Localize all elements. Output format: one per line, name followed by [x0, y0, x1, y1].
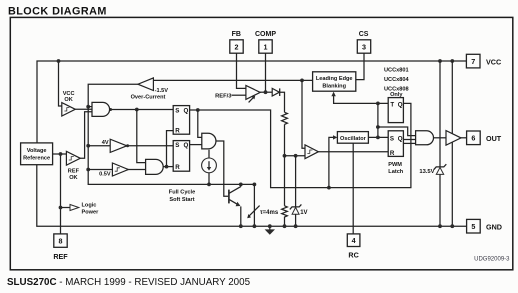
junction GND rail / transistor emitter	[239, 224, 243, 228]
wire 13.5V zener lower lead to GND rail	[439, 174, 441, 226]
svg-text:13.5V: 13.5V	[419, 169, 434, 175]
wire PWM latch Q output to gate G4	[403, 139, 415, 141]
svg-text:Leading Edge: Leading Edge	[316, 76, 353, 82]
svg-text:REF: REF	[53, 252, 68, 261]
comparator VCC OK	[62, 103, 76, 116]
junction GND rail / 1V zener	[294, 224, 298, 228]
svg-text:OUT: OUT	[486, 134, 502, 143]
junction Q1 wire / gate M1 branch	[196, 108, 200, 112]
junction GND rail / 13.5V zener	[438, 224, 442, 228]
wire 0.5V comparator input branch	[88, 169, 112, 171]
gate M1 (AND)	[202, 133, 216, 149]
wire gate G1 output to latch L1 S input	[110, 109, 174, 111]
wire gate G4 output to buffer	[434, 137, 446, 139]
arrow up into leading edge blanking	[331, 92, 335, 97]
latch L2 (SR)	[173, 141, 189, 172]
svg-text:FB: FB	[232, 31, 241, 38]
junction VCC rail / 13.5V zener	[438, 59, 442, 63]
svg-text:2: 2	[235, 42, 239, 51]
soft start switch with time constant	[247, 184, 259, 226]
junction REF net / logic power branch	[59, 206, 63, 210]
svg-text:UDG92009-3: UDG92009-3	[474, 257, 510, 263]
wire leading edge blanking output to over-current comparator	[154, 79, 313, 81]
svg-text:1V: 1V	[300, 210, 307, 216]
svg-text:Q: Q	[184, 107, 189, 114]
error amp U1	[246, 85, 260, 102]
svg-text:8: 8	[59, 236, 63, 245]
wire gate M1 output to transistor base	[216, 141, 228, 196]
svg-text:-1.5V: -1.5V	[155, 88, 169, 94]
current source circle	[202, 150, 217, 185]
svg-text:Power: Power	[82, 210, 100, 216]
svg-text:REF: REF	[68, 169, 80, 175]
svg-text:S: S	[175, 107, 179, 114]
junction S1 wire / gate M2 branch	[135, 108, 139, 112]
svg-text:UCCx801: UCCx801	[384, 67, 409, 73]
junction VCC rail / VCC OK branch	[57, 59, 61, 63]
svg-text:OK: OK	[64, 97, 72, 103]
wire oscillator output to PWM latch S input	[368, 136, 388, 138]
svg-text:OK: OK	[69, 175, 77, 181]
buffer output driver	[446, 131, 461, 146]
junction blanking net / gate G4 branch	[376, 125, 380, 129]
junction line B / oscillator input branch	[327, 186, 331, 190]
svg-text:1: 1	[264, 42, 268, 51]
svg-text:CS: CS	[359, 31, 369, 38]
svg-text:Over-Current: Over-Current	[131, 95, 166, 101]
svg-text:VCC: VCC	[486, 57, 501, 66]
gate G1 (AND)	[92, 102, 110, 116]
pin 8 REF	[53, 234, 68, 261]
svg-text:4V: 4V	[102, 140, 109, 146]
wire CS pin to leading edge blanking	[356, 53, 364, 79]
wire over-current output / soft start node (down left side to line A)	[88, 84, 254, 184]
wire COMP pin down to error amp output	[265, 53, 267, 92]
wire VCC OK comparator input branch	[59, 61, 63, 106]
junction GND rail / soft start switch	[253, 224, 257, 228]
transistor Q1 (soft start discharge, diode-connected)	[229, 184, 241, 226]
latch PWM (SR)	[388, 131, 403, 157]
ground symbol	[265, 226, 275, 235]
comparator 0.5V	[112, 163, 128, 176]
pin 3 CS	[357, 31, 370, 53]
wire branch to gate G4 input	[378, 127, 416, 136]
wire FB pin to error amp	[237, 53, 246, 88]
svg-text:REF/3: REF/3	[215, 93, 232, 99]
pin 4 RC	[347, 234, 360, 260]
zener diode 13.5V	[434, 164, 447, 174]
svg-text:Logic: Logic	[82, 203, 97, 209]
junction soft start node / 4V comparator input	[86, 144, 90, 148]
wire buffer output to OUT pin	[461, 137, 467, 139]
junction line A / soft start switch	[253, 183, 257, 187]
wire latch L2 Q output to gate M1	[190, 144, 202, 146]
junction R net	[165, 165, 169, 169]
svg-text:Oscillator: Oscillator	[340, 136, 367, 142]
svg-text:5: 5	[471, 222, 475, 231]
diode D1	[272, 88, 280, 96]
box oscillator	[337, 132, 368, 144]
svg-text:Soft Start: Soft Start	[169, 197, 194, 203]
wire REF/3 stub to error amp	[232, 94, 246, 96]
junction REF net tap	[59, 152, 63, 156]
wire GND rail (net GND: pin5 to voltage reference bottom)	[37, 165, 467, 227]
svg-text:BLOCK DIAGRAM: BLOCK DIAGRAM	[8, 6, 107, 18]
svg-text:3: 3	[362, 42, 366, 51]
comparator PWM	[305, 145, 318, 159]
junction line A / transistor collector	[239, 183, 243, 187]
comparator over-current (points left)	[138, 78, 154, 91]
resistor R1 (divider)	[282, 206, 288, 226]
pin 5 GND	[467, 219, 502, 233]
svg-text:GND: GND	[486, 222, 502, 231]
svg-text:Reference: Reference	[23, 156, 50, 162]
wire 0.5V comparator output to gate M2	[128, 169, 145, 171]
wire 1V zener upper lead	[295, 156, 297, 207]
wire divider node to PWM comparator input	[285, 155, 306, 157]
svg-text:S: S	[175, 142, 179, 149]
wire branch down to PWM comparator input	[302, 80, 305, 148]
junction over-current net / AND gate G1 input	[86, 105, 90, 109]
svg-text:4: 4	[352, 236, 356, 245]
svg-text:SLUS270C - MARCH 1999 - REVISE: SLUS270C - MARCH 1999 - REVISED JANUARY …	[7, 277, 251, 288]
gate M2 (AND)	[146, 159, 164, 174]
svg-text:Q: Q	[398, 135, 403, 142]
gate G4 (AND, output)	[416, 131, 434, 145]
junction soft start node / 0.5V comparator input	[86, 168, 90, 172]
junction GND rail / output stage	[450, 224, 454, 228]
latch L1 (SR)	[173, 106, 189, 135]
wire blanking net down to oscillator output node	[377, 103, 379, 137]
svg-text:RC: RC	[348, 251, 358, 260]
svg-text:S: S	[390, 135, 394, 142]
wire REF OK output up to gate G1	[80, 112, 92, 159]
svg-text:R: R	[175, 164, 180, 171]
wire oscillator input branch	[329, 137, 333, 187]
junction 4V comparator tip	[126, 144, 129, 147]
wire latch L1 Q output / line B / T flip-flop Q (long loop)	[190, 103, 411, 187]
wire VCC rail (net VCC: pin7 to voltage reference top)	[37, 61, 466, 143]
junction LEB output / PWM comparator branch	[300, 79, 304, 83]
arrow to logic power	[70, 205, 79, 211]
junction GND rail / ground stub	[268, 224, 272, 228]
flip-flop T (toggle)	[388, 98, 403, 123]
junction 1V zener tap	[294, 154, 298, 158]
svg-text:R: R	[175, 128, 180, 135]
pin 6 OUT	[467, 131, 502, 145]
pin 7 VCC	[466, 54, 501, 68]
box voltage reference	[21, 143, 53, 165]
comparator 4V	[110, 139, 127, 152]
junction oscillator output node	[376, 136, 380, 140]
wire branch down to gate M2 input	[137, 110, 146, 163]
wire diode to resistor R2	[280, 92, 285, 112]
svg-text:τ=4ms: τ=4ms	[260, 210, 279, 216]
resistor R2 (compensation divider upper)	[282, 112, 288, 124]
pin 2 FB	[230, 31, 243, 53]
wire latch L1 R input branch	[167, 131, 174, 167]
junction divider node	[283, 154, 287, 158]
wire leading edge blanking lower output to T flip-flop	[334, 96, 389, 104]
wire PWM comparator output to PWM latch R input	[318, 151, 388, 153]
junction VCC rail / output stage	[450, 59, 454, 63]
wire branch down to gate M1 input	[198, 110, 202, 137]
wire stub into gate G1	[88, 106, 92, 108]
pin 1 COMP	[255, 31, 276, 53]
wire error amp output to diode	[260, 91, 273, 93]
svg-text:R: R	[390, 150, 395, 157]
svg-text:UCCx804: UCCx804	[384, 77, 409, 83]
svg-text:Blanking: Blanking	[322, 84, 346, 90]
wire gate M2 output to latch R inputs	[163, 166, 173, 168]
wire oscillator to RC pin 4	[352, 143, 354, 234]
wire output stage rail (VCC to GND behind output buffer)	[451, 61, 453, 226]
wire voltage reference output to REF OK comparator	[53, 153, 67, 155]
wire 4V comparator output to latch L2 S input	[127, 145, 173, 147]
svg-text:7: 7	[471, 57, 475, 66]
wire logic power stub	[61, 207, 71, 209]
svg-text:Latch: Latch	[388, 169, 404, 175]
svg-text:COMP: COMP	[255, 31, 276, 38]
wire PWM latch lower output to gate G4	[403, 142, 415, 144]
svg-text:Full Cycle: Full Cycle	[169, 190, 195, 196]
wire VCC OK comparator output to gate G1	[75, 108, 92, 110]
zener diode 1V	[290, 204, 302, 226]
comparator REF OK	[66, 151, 80, 165]
wire 13.5V zener upper lead from VCC rail	[439, 61, 441, 167]
junction GND rail / resistor	[283, 224, 287, 228]
svg-text:T: T	[390, 101, 394, 108]
junction G1 output tip	[109, 108, 112, 111]
arrow into oscillator	[333, 135, 337, 139]
wire resistor R2 to divider node	[284, 124, 286, 205]
wire 4V comparator input branch	[88, 145, 110, 147]
box leading edge blanking	[313, 72, 356, 91]
wire REF net (voltage reference output down to pin 8)	[60, 154, 62, 234]
svg-text:0.5V: 0.5V	[99, 171, 111, 177]
junction COMP / error amp output	[264, 90, 268, 94]
svg-text:Q: Q	[398, 101, 403, 108]
svg-text:6: 6	[471, 134, 475, 143]
svg-text:PWM: PWM	[388, 162, 402, 168]
junction blanking net tap	[376, 102, 380, 106]
svg-text:Q: Q	[184, 142, 189, 149]
svg-text:Voltage: Voltage	[27, 148, 47, 154]
junction line A / current source	[207, 183, 211, 187]
